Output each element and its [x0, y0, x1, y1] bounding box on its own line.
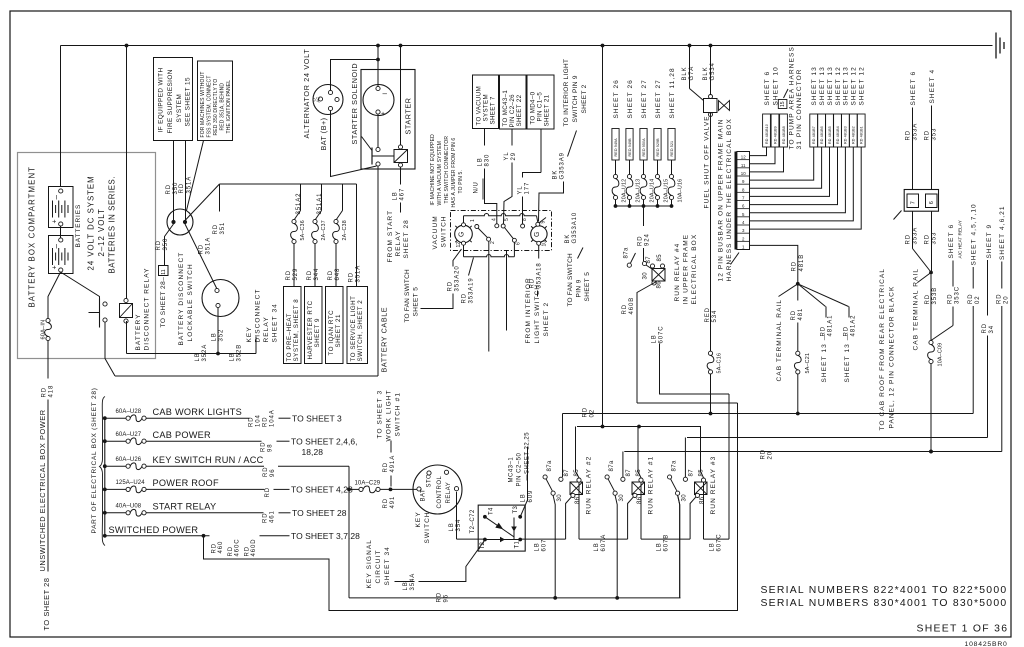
- svg-text:02: 02: [975, 296, 981, 304]
- svg-text:FROM START: FROM START: [387, 210, 394, 263]
- svg-text:SHEET 12: SHEET 12: [859, 66, 866, 105]
- svg-text:RD 481B5: RD 481B5: [828, 126, 832, 144]
- svg-text:RD: RD: [179, 183, 185, 193]
- svg-text:PIN C2–26: PIN C2–26: [509, 94, 516, 128]
- svg-text:460B: 460B: [629, 297, 635, 315]
- svg-text:SERIAL NUMBERS 830*4001 TO 830: SERIAL NUMBERS 830*4001 TO 830*5000: [761, 598, 1008, 609]
- svg-text:RED 929B: RED 929B: [656, 138, 660, 157]
- svg-text:YL: YL: [504, 151, 510, 160]
- svg-text:RD: RD: [462, 293, 468, 303]
- svg-text:104: 104: [256, 414, 262, 427]
- svg-text:FROM INTERIOR: FROM INTERIOR: [525, 277, 532, 343]
- svg-text:RD: RD: [982, 323, 988, 333]
- svg-text:TO PIN 5.: TO PIN 5.: [458, 170, 464, 194]
- svg-text:LB: LB: [478, 157, 484, 166]
- svg-text:RUN RELAY #3: RUN RELAY #3: [710, 456, 717, 515]
- svg-text:RD: RD: [383, 462, 389, 472]
- svg-text:LB: LB: [212, 332, 218, 341]
- svg-text:LB: LB: [195, 352, 201, 361]
- svg-text:G: G: [534, 232, 541, 237]
- svg-text:ALTERNATOR 24 VOLT: ALTERNATOR 24 VOLT: [302, 49, 311, 139]
- svg-text:IF EQUIPPED WITH: IF EQUIPPED WITH: [157, 68, 164, 133]
- svg-text:344: 344: [314, 268, 320, 281]
- svg-text:AC: AC: [316, 97, 321, 103]
- svg-text:KEY: KEY: [415, 511, 422, 527]
- svg-text:RD: RD: [42, 387, 48, 397]
- svg-text:351A: 351A: [356, 265, 362, 283]
- svg-text:60A–IN: 60A–IN: [41, 320, 47, 340]
- svg-text:SHEET 27: SHEET 27: [655, 79, 662, 118]
- svg-text:G353A9: G353A9: [560, 152, 566, 179]
- svg-text:TO SHEET 4,28: TO SHEET 4,28: [291, 485, 353, 495]
- svg-text:RD 481B7: RD 481B7: [812, 126, 816, 144]
- svg-text:LB: LB: [230, 352, 236, 361]
- svg-text:18,28: 18,28: [302, 447, 324, 457]
- svg-text:A/C HEAT RELAY: A/C HEAT RELAY: [958, 219, 964, 258]
- svg-text:353C: 353C: [955, 286, 961, 304]
- svg-text:SHEET 13: SHEET 13: [827, 66, 834, 105]
- svg-text:10: 10: [741, 171, 746, 176]
- svg-text:20: 20: [1004, 296, 1010, 304]
- svg-text:SHEET 6: SHEET 6: [948, 224, 955, 259]
- svg-text:HARVESTER RTC: HARVESTER RTC: [307, 300, 314, 359]
- svg-text:RD 481B2: RD 481B2: [852, 126, 856, 144]
- svg-text:G: G: [459, 232, 466, 237]
- svg-text:SERIAL NUMBERS 822*4001 TO 822: SERIAL NUMBERS 822*4001 TO 822*5000: [761, 585, 1008, 596]
- svg-text:LOCKABLE SWITCH: LOCKABLE SWITCH: [187, 263, 194, 341]
- svg-text:353A19: 353A19: [469, 277, 475, 303]
- svg-text:CIRCUIT: CIRCUIT: [375, 549, 382, 583]
- svg-text:30: 30: [682, 494, 688, 502]
- svg-text:RED 949B: RED 949B: [628, 138, 632, 157]
- svg-text:352A: 352A: [202, 344, 208, 362]
- svg-text:THE IGNITION PANEL: THE IGNITION PANEL: [226, 80, 232, 134]
- svg-text:RD: RD: [307, 270, 313, 280]
- svg-text:G7A: G7A: [689, 66, 695, 81]
- svg-text:SHEET 5: SHEET 5: [412, 287, 419, 317]
- svg-text:1: 1: [470, 219, 476, 222]
- svg-text:T1: T1: [515, 541, 521, 549]
- svg-text:11: 11: [161, 269, 167, 274]
- svg-text:460D: 460D: [251, 539, 257, 557]
- svg-text:87: 87: [689, 469, 695, 477]
- svg-text:11: 11: [741, 163, 746, 168]
- svg-text:LB: LB: [594, 542, 600, 551]
- svg-text:SHEET 21: SHEET 21: [544, 94, 551, 126]
- svg-text:LB: LB: [657, 542, 663, 551]
- svg-text:TO MC43–1: TO MC43–1: [502, 90, 509, 127]
- svg-text:351A2: 351A2: [296, 193, 302, 215]
- svg-text:STARTER SOLENOID: STARTER SOLENOID: [350, 63, 359, 145]
- svg-text:87a: 87a: [609, 460, 615, 471]
- svg-text:29: 29: [511, 152, 517, 160]
- svg-text:40A–U08: 40A–U08: [116, 504, 142, 510]
- svg-text:SHEET 13 —: SHEET 13 —: [821, 333, 828, 383]
- svg-text:RD: RD: [948, 294, 954, 304]
- svg-text:12: 12: [741, 155, 746, 160]
- svg-text:RD: RD: [213, 224, 219, 234]
- svg-text:SHEET 9: SHEET 9: [314, 318, 321, 348]
- svg-text:DISCONNECT: DISCONNECT: [254, 289, 261, 343]
- svg-text:351A1: 351A1: [317, 193, 323, 215]
- svg-text:481: 481: [798, 308, 804, 321]
- svg-text:354: 354: [456, 519, 462, 532]
- svg-text:607C: 607C: [717, 534, 723, 552]
- svg-text:SWITCH: SWITCH: [440, 215, 447, 247]
- svg-text:60A–U27: 60A–U27: [116, 432, 142, 438]
- svg-text:KEY SIGNAL: KEY SIGNAL: [366, 539, 373, 589]
- svg-text:SHEET 6: SHEET 6: [910, 71, 917, 106]
- svg-text:RD: RD: [349, 272, 355, 282]
- svg-text:RED 350 DIRECTLY TO: RED 350 DIRECTLY TO: [213, 79, 219, 136]
- svg-text:SHEET 26: SHEET 26: [613, 79, 620, 118]
- svg-text:–: –: [51, 195, 60, 200]
- svg-text:FUEL SHUT OFF VALVE: FUEL SHUT OFF VALVE: [703, 115, 710, 208]
- svg-text:BLK: BLK: [703, 66, 709, 80]
- svg-text:SHEET 21: SHEET 21: [335, 314, 342, 348]
- svg-text:481A2: 481A2: [851, 315, 857, 337]
- svg-text:RD: RD: [383, 498, 389, 508]
- svg-text:RD: RD: [249, 417, 255, 427]
- svg-text:RED 949A: RED 949A: [614, 138, 618, 157]
- svg-text:529: 529: [293, 268, 299, 281]
- svg-text:START RELAY: START RELAY: [153, 502, 217, 512]
- svg-text:FSS SYSTEM, CONNECT: FSS SYSTEM, CONNECT: [206, 75, 212, 137]
- svg-text:SHEET 9: SHEET 9: [986, 224, 993, 259]
- svg-text:RD: RD: [925, 130, 931, 140]
- svg-text:PIN 9: PIN 9: [575, 279, 582, 297]
- svg-text:SHEET 13: SHEET 13: [819, 66, 826, 105]
- svg-text:T2–C72: T2–C72: [470, 509, 476, 534]
- svg-text:491A: 491A: [390, 455, 396, 473]
- svg-text:104A: 104A: [270, 409, 276, 427]
- svg-text:RD: RD: [638, 236, 644, 246]
- svg-text:RD 481B8: RD 481B8: [782, 126, 786, 144]
- svg-text:RELAY: RELAY: [446, 482, 452, 504]
- svg-text:PIN C2–50: PIN C2–50: [517, 452, 523, 486]
- svg-text:BK: BK: [565, 234, 571, 244]
- svg-text:T3: T3: [513, 506, 519, 514]
- svg-text:SHEET 2: SHEET 2: [543, 302, 550, 337]
- svg-text:RD: RD: [156, 240, 162, 250]
- svg-text:SHEET 22: SHEET 22: [516, 94, 523, 126]
- svg-text:RD: RD: [761, 449, 767, 459]
- svg-text:TO SHEET 3: TO SHEET 3: [292, 413, 342, 423]
- svg-text:SHEET 26: SHEET 26: [627, 79, 634, 118]
- svg-text:TO SHEET 2,4,6,: TO SHEET 2,4,6,: [291, 436, 358, 446]
- svg-text:KEY: KEY: [246, 326, 253, 342]
- svg-text:–: –: [383, 89, 388, 98]
- svg-text:96: 96: [444, 594, 450, 602]
- svg-text:108425BR0: 108425BR0: [965, 641, 1008, 647]
- svg-text:10: 10: [541, 241, 547, 247]
- svg-text:353: 353: [932, 128, 938, 141]
- svg-text:BATTERY CABLE: BATTERY CABLE: [380, 307, 389, 373]
- svg-text:DISCONNECT RELAY: DISCONNECT RELAY: [143, 267, 150, 350]
- svg-text:534: 534: [712, 310, 718, 323]
- svg-text:+: +: [52, 219, 59, 223]
- svg-text:RD: RD: [286, 270, 292, 280]
- svg-text:SHEET 1 OF 36: SHEET 1 OF 36: [917, 624, 1009, 635]
- svg-text:607A: 607A: [601, 534, 607, 552]
- svg-text:86: 86: [575, 496, 581, 504]
- svg-text:6: 6: [929, 201, 935, 204]
- svg-text:CONTROL: CONTROL: [437, 476, 443, 509]
- svg-text:RD 481B10: RD 481B10: [765, 124, 769, 144]
- svg-text:SEE SHEET 15: SEE SHEET 15: [184, 77, 191, 126]
- svg-text:FIRE SUPPRESION: FIRE SUPPRESION: [167, 69, 174, 133]
- svg-text:SYSTEM, SHEET 8: SYSTEM, SHEET 8: [293, 299, 300, 362]
- svg-text:RD: RD: [792, 261, 798, 271]
- svg-text:460C: 460C: [235, 539, 241, 557]
- svg-text:418: 418: [49, 385, 55, 398]
- svg-text:125A–U24: 125A–U24: [116, 480, 146, 486]
- svg-text:SHEET 28: SHEET 28: [403, 219, 410, 258]
- svg-text:10A–U16: 10A–U16: [677, 179, 683, 203]
- svg-text:TO INTERIOR LIGHT: TO INTERIOR LIGHT: [563, 59, 570, 127]
- svg-text:5A–C36: 5A–C36: [300, 220, 306, 240]
- svg-text:2A–C38: 2A–C38: [342, 220, 348, 240]
- svg-text:354A: 354A: [410, 573, 416, 591]
- svg-text:RD: RD: [906, 130, 912, 140]
- svg-text:SWITCH PIN 9: SWITCH PIN 9: [572, 75, 579, 122]
- svg-text:86: 86: [637, 496, 643, 504]
- svg-text:TO CAB ROOF FROM REAR ELECTRIC: TO CAB ROOF FROM REAR ELECTRICAL: [879, 268, 886, 431]
- svg-text:SWITCH, SHEET 2: SWITCH, SHEET 2: [357, 300, 364, 362]
- svg-text:SHEET 6: SHEET 6: [764, 71, 771, 106]
- svg-text:TO FAN SWITCH: TO FAN SWITCH: [567, 253, 574, 307]
- svg-text:460: 460: [218, 541, 224, 554]
- svg-text:WITH A VACUUM SYSTEM: WITH A VACUUM SYSTEM: [437, 141, 443, 206]
- svg-text:RD: RD: [166, 184, 172, 194]
- svg-text:352B: 352B: [237, 344, 243, 362]
- svg-text:30: 30: [619, 494, 625, 502]
- svg-text:TO PRE–HEAT: TO PRE–HEAT: [286, 313, 293, 361]
- svg-text:POWER ROOF: POWER ROOF: [153, 478, 219, 488]
- svg-text:SHEET 4,6,21: SHEET 4,6,21: [999, 205, 1006, 260]
- svg-text:351: 351: [220, 222, 226, 235]
- svg-text:BATTERY BOX COMPARTMENT: BATTERY BOX COMPARTMENT: [27, 166, 36, 308]
- svg-text:RUN RELAY #4: RUN RELAY #4: [674, 243, 681, 302]
- svg-text:96: 96: [270, 469, 276, 477]
- svg-text:—SHEET 22,25: —SHEET 22,25: [525, 432, 531, 481]
- svg-text:CAB WORK LIGHTS: CAB WORK LIGHTS: [153, 407, 243, 417]
- svg-text:LB: LB: [521, 493, 527, 502]
- svg-text:LB: LB: [393, 191, 399, 200]
- svg-text:TO PUMP AREA HARNESS: TO PUMP AREA HARNESS: [788, 46, 795, 149]
- svg-text:353A20: 353A20: [455, 265, 461, 291]
- svg-text:RD: RD: [265, 487, 271, 497]
- svg-text:–: –: [51, 244, 60, 249]
- svg-text:177: 177: [525, 182, 531, 195]
- svg-text:RED 351A, BEHIND: RED 351A, BEHIND: [219, 83, 225, 131]
- svg-text:THE SWITCH CONNECTOR: THE SWITCH CONNECTOR: [444, 136, 450, 204]
- svg-text:RD 481B9: RD 481B9: [773, 126, 777, 144]
- svg-text:351A: 351A: [206, 237, 212, 255]
- svg-text:+: +: [381, 111, 385, 118]
- svg-text:+: +: [52, 265, 59, 269]
- svg-text:MC43–1: MC43–1: [509, 457, 515, 483]
- svg-text:467: 467: [400, 188, 406, 201]
- svg-text:RD: RD: [925, 234, 931, 244]
- svg-text:TO SERVICE LIGHT: TO SERVICE LIGHT: [350, 296, 357, 362]
- svg-text:SHEET 13: SHEET 13: [811, 66, 818, 105]
- svg-text:TO MD4–0: TO MD4–0: [530, 91, 537, 124]
- svg-text:2–12 VOLT: 2–12 VOLT: [97, 208, 106, 256]
- svg-text:SHEET 7: SHEET 7: [490, 96, 497, 124]
- svg-text:RUN RELAY #2: RUN RELAY #2: [585, 456, 592, 515]
- svg-text:TO SHEET 28–: TO SHEET 28–: [160, 277, 167, 328]
- svg-text:353A: 353A: [913, 123, 919, 141]
- svg-text:TO IQAN RTC: TO IQAN RTC: [328, 310, 335, 356]
- svg-text:LB: LB: [535, 542, 541, 551]
- svg-text:SHEET 34: SHEET 34: [384, 546, 391, 585]
- svg-text:RD: RD: [261, 442, 267, 452]
- svg-text:SWITCHED POWER: SWITCHED POWER: [109, 525, 199, 535]
- svg-text:N/U: N/U: [474, 182, 480, 194]
- svg-text:BK: BK: [553, 170, 559, 180]
- svg-text:LB: LB: [710, 542, 716, 551]
- svg-text:SHEET 4,5,7,10: SHEET 4,5,7,10: [971, 203, 978, 265]
- svg-text:15: 15: [780, 101, 786, 107]
- svg-text:LIGHT SWITCH: LIGHT SWITCH: [534, 284, 541, 344]
- svg-text:RD: RD: [791, 310, 797, 320]
- svg-text:352: 352: [219, 329, 225, 342]
- svg-text:BATTERIES: BATTERIES: [75, 204, 82, 248]
- svg-text:BATTERIES IN SERIES.: BATTERIES IN SERIES.: [107, 176, 116, 274]
- svg-text:RUN RELAY #1: RUN RELAY #1: [647, 456, 654, 515]
- svg-text:TO SHEET 3: TO SHEET 3: [376, 390, 383, 439]
- svg-text:SHEET 13 —: SHEET 13 —: [844, 333, 851, 383]
- svg-text:98: 98: [268, 444, 274, 452]
- svg-text:SHEET 12: SHEET 12: [851, 66, 858, 105]
- svg-text:10A–C29: 10A–C29: [355, 481, 381, 487]
- svg-text:RD: RD: [968, 294, 974, 304]
- svg-text:BATTERY: BATTERY: [135, 313, 142, 350]
- svg-text:12: 12: [456, 242, 462, 248]
- svg-text:20: 20: [768, 451, 774, 459]
- svg-text:LB: LB: [403, 581, 409, 590]
- svg-text:648: 648: [335, 268, 341, 281]
- svg-text:RD: RD: [622, 304, 628, 314]
- svg-text:SHEET 34: SHEET 34: [271, 303, 278, 342]
- svg-text:SHEET 13: SHEET 13: [843, 66, 850, 105]
- svg-text:8: 8: [522, 218, 528, 221]
- svg-text:SHEET 27: SHEET 27: [641, 79, 648, 118]
- svg-text:FOR MACHINES WITHOUT: FOR MACHINES WITHOUT: [200, 71, 206, 137]
- svg-text:RED 950A: RED 950A: [642, 138, 646, 157]
- svg-text:2A–C37: 2A–C37: [321, 220, 327, 240]
- svg-text:RD: RD: [263, 417, 269, 427]
- svg-text:TO FAN SWITCH: TO FAN SWITCH: [404, 269, 411, 323]
- svg-text:30: 30: [643, 272, 649, 280]
- svg-text:607C: 607C: [659, 326, 665, 344]
- svg-text:353: 353: [932, 232, 938, 245]
- svg-text:87: 87: [564, 469, 570, 477]
- svg-text:BAT: BAT: [421, 489, 427, 502]
- svg-text:RD: RD: [583, 407, 589, 417]
- svg-text:31 PIN CONNECTOR: 31 PIN CONNECTOR: [796, 68, 803, 149]
- svg-text:RED: RED: [705, 307, 711, 322]
- svg-text:607: 607: [542, 539, 548, 552]
- svg-text:VACUUM: VACUUM: [432, 215, 439, 249]
- svg-text:SYSTEM: SYSTEM: [483, 94, 490, 122]
- svg-text:RED 521: RED 521: [670, 141, 674, 157]
- svg-text:830: 830: [485, 154, 491, 167]
- svg-text:SHEET 12: SHEET 12: [835, 66, 842, 105]
- svg-text:87a: 87a: [672, 460, 678, 471]
- svg-text:607B: 607B: [664, 534, 670, 552]
- svg-text:85: 85: [657, 254, 663, 262]
- svg-text:RD 481B6: RD 481B6: [820, 126, 824, 144]
- svg-text:RD: RD: [925, 294, 931, 304]
- svg-text:ELECTRICAL BOX: ELECTRICAL BOX: [691, 234, 698, 305]
- svg-text:RD: RD: [328, 270, 334, 280]
- svg-text:481A1: 481A1: [828, 315, 834, 337]
- svg-text:HARNESS UNDER THE ELECTRICAL B: HARNESS UNDER THE ELECTRICAL BOX: [726, 118, 733, 281]
- svg-text:G353A10: G353A10: [572, 212, 578, 244]
- svg-text:34: 34: [989, 325, 995, 333]
- svg-text:UNSWITCHED ELECTRICAL BOX POWE: UNSWITCHED ELECTRICAL BOX POWER: [38, 409, 47, 571]
- svg-text:RD: RD: [448, 281, 454, 291]
- svg-text:PANEL, 12 PIN CONNECTOR BLACK: PANEL, 12 PIN CONNECTOR BLACK: [888, 286, 895, 429]
- svg-text:RD: RD: [199, 244, 205, 254]
- svg-text:LB: LB: [449, 522, 455, 531]
- svg-text:RD: RD: [437, 592, 443, 602]
- svg-text:TO VACUUM: TO VACUUM: [476, 86, 483, 126]
- svg-text:491: 491: [390, 496, 396, 509]
- svg-text:SHEET 4: SHEET 4: [929, 69, 936, 104]
- svg-text:RD: RD: [997, 294, 1003, 304]
- svg-text:87: 87: [626, 469, 632, 477]
- svg-text:BAT (B+): BAT (B+): [319, 117, 328, 150]
- svg-text:RD: RD: [906, 234, 912, 244]
- svg-text:RD 481B1: RD 481B1: [860, 126, 864, 144]
- svg-text:2: 2: [490, 241, 496, 244]
- svg-text:5A–C16: 5A–C16: [716, 353, 722, 374]
- svg-text:WORK LIGHT: WORK LIGHT: [385, 389, 392, 441]
- svg-text:IF MACHINE NOT EQUIPPED: IF MACHINE NOT EQUIPPED: [430, 134, 436, 206]
- svg-text:7: 7: [910, 201, 916, 204]
- svg-text:60A–U28: 60A–U28: [116, 409, 142, 415]
- svg-text:5A–C21: 5A–C21: [805, 353, 811, 374]
- svg-text:RD 481B3: RD 481B3: [844, 126, 848, 144]
- svg-text:LB: LB: [652, 334, 658, 343]
- svg-text:SHEET 5: SHEET 5: [584, 272, 591, 302]
- svg-text:G534: G534: [710, 62, 716, 80]
- svg-text:BLK: BLK: [682, 66, 688, 80]
- svg-text:KEY SWITCH RUN / ACC: KEY SWITCH RUN / ACC: [153, 455, 264, 465]
- svg-text:350: 350: [163, 238, 169, 251]
- svg-text:60A–U26: 60A–U26: [116, 457, 142, 463]
- svg-text:TO SHEET 3,7,28: TO SHEET 3,7,28: [291, 531, 360, 541]
- svg-text:STO: STO: [427, 474, 433, 488]
- svg-text:SWITCH #1: SWITCH #1: [394, 392, 401, 437]
- svg-text:4: 4: [491, 218, 497, 221]
- svg-text:CAB POWER: CAB POWER: [153, 430, 212, 440]
- svg-text:609: 609: [528, 490, 534, 503]
- svg-text:5: 5: [504, 218, 510, 221]
- svg-text:RD: RD: [263, 467, 269, 477]
- svg-text:RELAY: RELAY: [263, 316, 270, 342]
- svg-text:924: 924: [645, 233, 651, 246]
- svg-text:87a: 87a: [624, 247, 630, 258]
- svg-text:87: 87: [646, 256, 652, 264]
- svg-text:TO SHEET 28: TO SHEET 28: [292, 508, 347, 518]
- svg-text:353B: 353B: [932, 287, 938, 305]
- svg-text:RD: RD: [212, 543, 218, 553]
- svg-text:YL: YL: [518, 185, 524, 194]
